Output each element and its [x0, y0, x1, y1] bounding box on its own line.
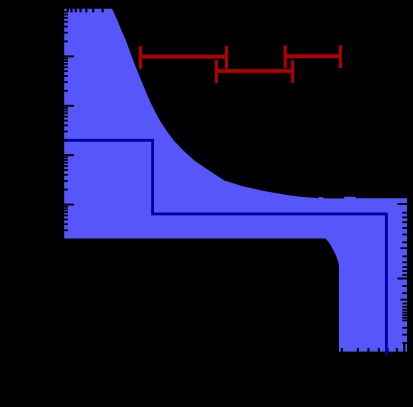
red error bar 1 (upper left) — [140, 46, 226, 69]
red error bar 3 (upper right) — [285, 45, 340, 68]
right axis major ticks — [398, 204, 408, 279]
bottom axis major tick — [403, 343, 405, 352]
bottom axis ticks (minor, pointing up into band) — [342, 343, 404, 352]
confidence band (blue filled region) — [64, 9, 407, 352]
left axis major ticks — [64, 56, 74, 204]
right axis medium ticks — [401, 248, 408, 299]
left axis minor ticks (log pattern) — [64, 12, 68, 231]
red error bar 2 (lower middle) — [216, 60, 292, 83]
top axis ticks (pointing down into band) — [68, 9, 116, 14]
observed limit step line (dark blue) — [64, 140, 386, 355]
right axis minor ticks (log pattern) — [402, 213, 407, 343]
